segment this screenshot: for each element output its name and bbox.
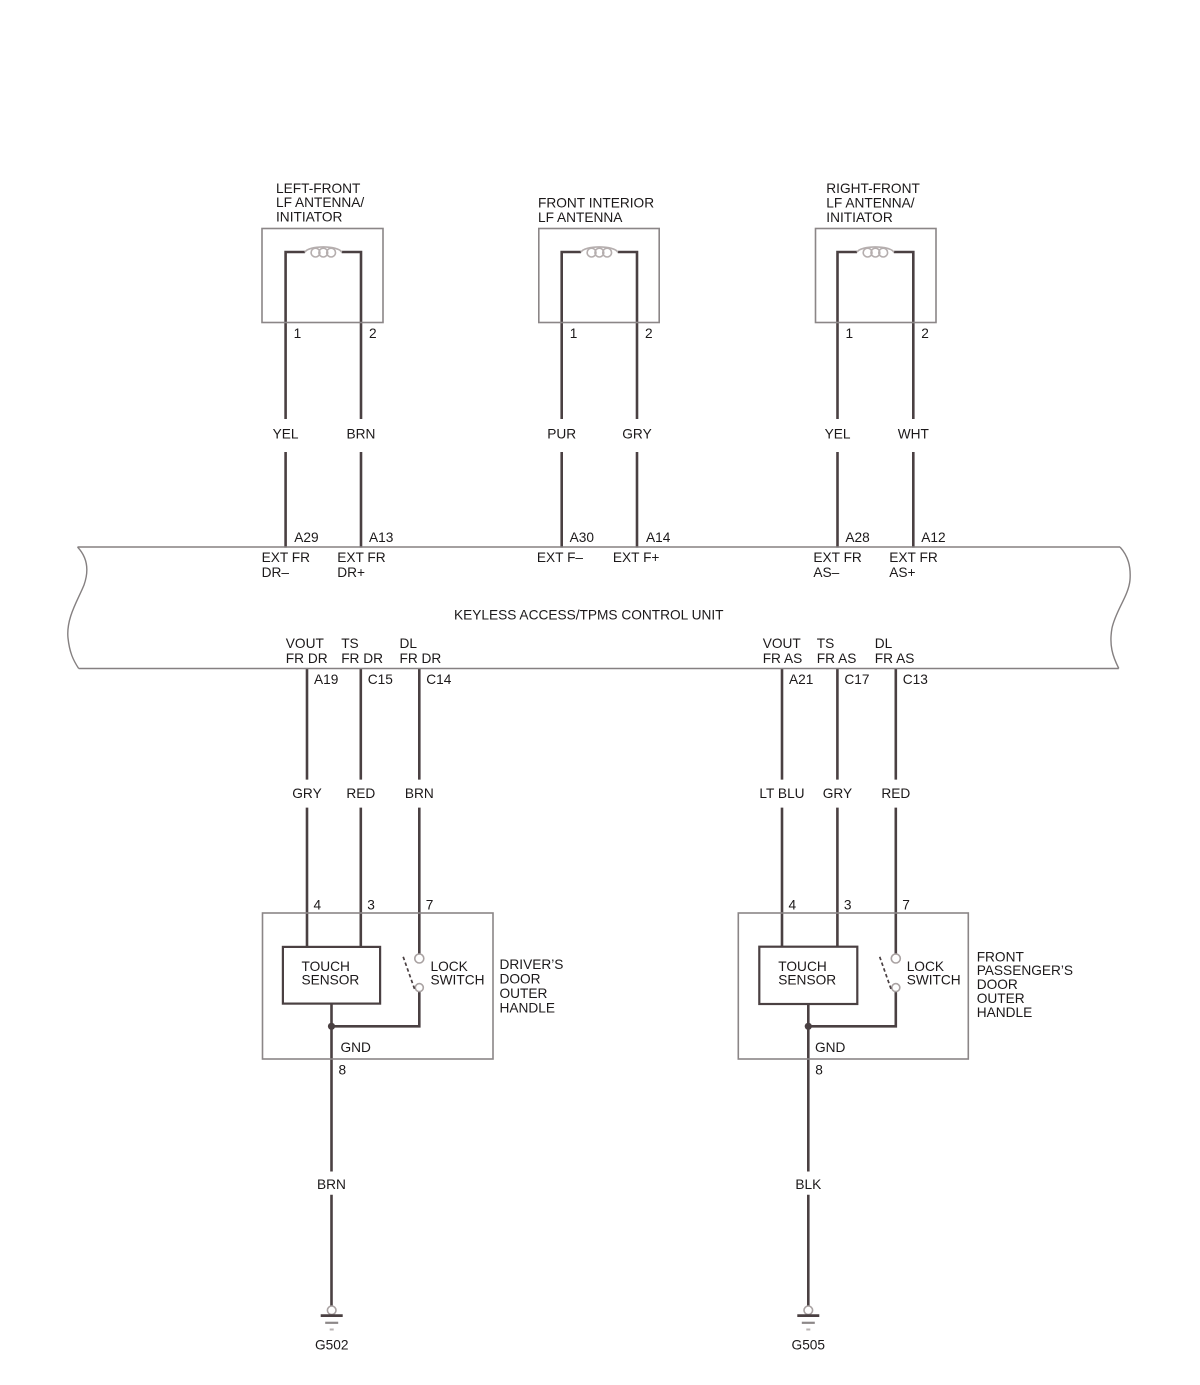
svg-text:7: 7	[426, 897, 434, 912]
svg-text:INITIATOR: INITIATOR	[276, 210, 343, 225]
svg-text:VOUT: VOUT	[763, 636, 802, 651]
svg-text:LT BLU: LT BLU	[759, 786, 804, 801]
svg-text:A13: A13	[369, 530, 394, 545]
svg-text:G505: G505	[792, 1338, 826, 1353]
svg-text:A14: A14	[646, 530, 671, 545]
svg-text:YEL: YEL	[825, 426, 851, 441]
svg-text:A12: A12	[921, 530, 945, 545]
svg-text:LF ANTENNA: LF ANTENNA	[538, 210, 623, 225]
svg-text:TS: TS	[817, 636, 835, 651]
svg-text:RIGHT-FRONT: RIGHT-FRONT	[826, 181, 920, 196]
svg-text:LF ANTENNA/: LF ANTENNA/	[826, 196, 914, 211]
svg-text:LF ANTENNA/: LF ANTENNA/	[276, 195, 364, 210]
svg-text:SWITCH: SWITCH	[431, 973, 485, 988]
svg-text:A30: A30	[570, 530, 595, 545]
svg-text:EXT FR: EXT FR	[813, 550, 862, 565]
svg-text:4: 4	[314, 897, 322, 912]
svg-text:FR DR: FR DR	[341, 651, 383, 666]
svg-text:1: 1	[294, 326, 302, 341]
svg-text:SWITCH: SWITCH	[907, 973, 961, 988]
svg-text:EXT F+: EXT F+	[613, 550, 660, 565]
svg-text:DR–: DR–	[262, 565, 290, 580]
svg-text:FR AS: FR AS	[875, 651, 915, 666]
svg-text:BRN: BRN	[317, 1177, 346, 1192]
svg-text:VOUT: VOUT	[286, 636, 325, 651]
svg-text:1: 1	[570, 326, 578, 341]
svg-text:INITIATOR: INITIATOR	[826, 210, 893, 225]
svg-text:EXT FR: EXT FR	[889, 550, 938, 565]
svg-text:DL: DL	[400, 636, 418, 651]
svg-text:SENSOR: SENSOR	[778, 973, 836, 988]
svg-text:DL: DL	[875, 636, 893, 651]
svg-text:GND: GND	[341, 1040, 372, 1055]
svg-text:C17: C17	[844, 672, 869, 687]
svg-text:SENSOR: SENSOR	[302, 973, 360, 988]
svg-text:KEYLESS ACCESS/TPMS CONTROL UN: KEYLESS ACCESS/TPMS CONTROL UNIT	[454, 607, 724, 622]
svg-text:LEFT-FRONT: LEFT-FRONT	[276, 181, 361, 196]
svg-text:EXT FR: EXT FR	[337, 550, 386, 565]
svg-text:BRN: BRN	[347, 426, 376, 441]
svg-text:8: 8	[815, 1062, 823, 1077]
svg-text:DOOR: DOOR	[500, 972, 541, 987]
svg-text:FR AS: FR AS	[763, 651, 803, 666]
svg-text:A28: A28	[845, 530, 870, 545]
svg-text:DOOR: DOOR	[977, 977, 1018, 992]
svg-text:FR AS: FR AS	[817, 651, 857, 666]
svg-text:BLK: BLK	[795, 1177, 821, 1192]
svg-text:GRY: GRY	[292, 786, 321, 801]
svg-text:8: 8	[339, 1062, 347, 1077]
svg-text:PUR: PUR	[547, 426, 576, 441]
svg-text:2: 2	[921, 326, 929, 341]
svg-text:HANDLE: HANDLE	[977, 1005, 1033, 1020]
svg-text:2: 2	[369, 326, 377, 341]
svg-text:1: 1	[846, 326, 854, 341]
svg-text:RED: RED	[881, 786, 910, 801]
svg-text:C13: C13	[903, 672, 928, 687]
svg-text:C15: C15	[368, 672, 393, 687]
svg-text:FR DR: FR DR	[286, 651, 328, 666]
svg-text:OUTER: OUTER	[977, 991, 1025, 1006]
svg-text:PASSENGER’S: PASSENGER’S	[977, 963, 1073, 978]
svg-text:FRONT: FRONT	[977, 949, 1025, 964]
svg-text:EXT FR: EXT FR	[262, 550, 311, 565]
svg-text:7: 7	[902, 897, 910, 912]
svg-text:OUTER: OUTER	[500, 986, 548, 1001]
svg-text:TS: TS	[341, 636, 359, 651]
svg-text:WHT: WHT	[898, 426, 930, 441]
svg-text:2: 2	[645, 326, 653, 341]
svg-text:G502: G502	[315, 1338, 348, 1353]
svg-text:RED: RED	[346, 786, 375, 801]
svg-text:EXT F–: EXT F–	[537, 550, 584, 565]
svg-text:HANDLE: HANDLE	[500, 1000, 556, 1015]
svg-text:4: 4	[789, 897, 797, 912]
svg-text:DR+: DR+	[337, 565, 365, 580]
svg-text:YEL: YEL	[273, 426, 299, 441]
svg-text:AS+: AS+	[889, 565, 915, 580]
svg-text:FRONT INTERIOR: FRONT INTERIOR	[538, 195, 654, 210]
svg-text:C14: C14	[426, 672, 451, 687]
svg-text:3: 3	[844, 897, 852, 912]
svg-text:GRY: GRY	[823, 786, 852, 801]
svg-text:FR DR: FR DR	[400, 651, 442, 666]
svg-text:GND: GND	[815, 1040, 846, 1055]
svg-text:AS–: AS–	[813, 565, 839, 580]
svg-text:GRY: GRY	[622, 426, 651, 441]
svg-text:A29: A29	[294, 530, 318, 545]
svg-text:BRN: BRN	[405, 786, 434, 801]
svg-text:A21: A21	[789, 672, 813, 687]
svg-text:3: 3	[367, 897, 375, 912]
svg-text:A19: A19	[314, 672, 338, 687]
svg-text:DRIVER’S: DRIVER’S	[500, 957, 564, 972]
